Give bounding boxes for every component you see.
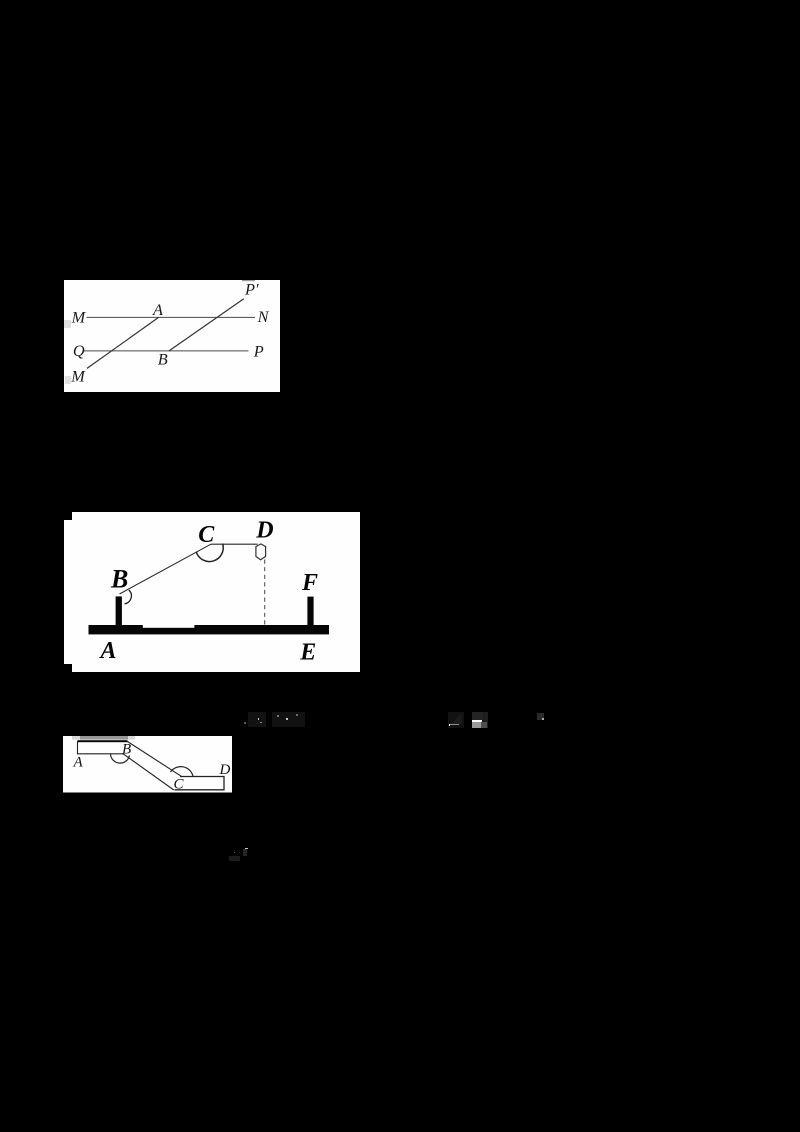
svg-text:A: A: [73, 754, 84, 770]
svg-text:D: D: [219, 762, 231, 778]
svg-text:A: A: [152, 300, 163, 319]
svg-text:A: A: [99, 638, 117, 664]
svg-text:B: B: [158, 350, 168, 369]
svg-text:N: N: [257, 307, 270, 326]
svg-text:C: C: [174, 777, 185, 793]
svg-text:B: B: [122, 741, 131, 757]
svg-text:M: M: [70, 366, 86, 385]
svg-text:B: B: [110, 564, 128, 593]
svg-text:Q: Q: [73, 341, 85, 360]
svg-text:P: P: [253, 341, 264, 360]
svg-text:P′: P′: [244, 280, 259, 299]
svg-text:C: C: [198, 522, 215, 548]
svg-text:M: M: [71, 307, 87, 326]
svg-text:F: F: [301, 570, 318, 596]
svg-text:D: D: [255, 517, 273, 543]
svg-text:E: E: [299, 639, 316, 665]
